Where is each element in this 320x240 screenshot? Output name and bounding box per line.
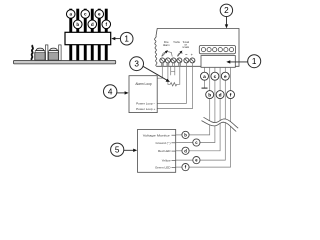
relay block 2 <box>48 48 58 60</box>
wire resistor to T4 <box>177 63 180 85</box>
wire e drop <box>200 67 225 160</box>
node d label <box>88 20 97 29</box>
node c label <box>81 10 90 19</box>
node e label (module end) <box>221 72 229 80</box>
screw terminal TB1-5 <box>184 58 189 63</box>
svg-text:5: 5 <box>115 146 120 155</box>
chassis base bar <box>14 60 116 64</box>
node e label <box>95 10 104 19</box>
screw terminal TB1-2 <box>165 58 170 63</box>
svg-text:to loads: to loads <box>183 45 190 49</box>
node d label (module end) <box>216 91 224 99</box>
node b label (module end) <box>206 91 214 99</box>
svg-text:Red LED: Red LED <box>158 149 171 153</box>
cable wire c (thick) <box>84 9 87 61</box>
voltage monitor box (callout 5 target) <box>138 130 176 173</box>
svg-text:1: 1 <box>252 57 257 66</box>
wire b drop <box>189 67 210 135</box>
lead line b <box>176 134 182 136</box>
node c label (monitor end) <box>193 139 200 146</box>
node f label (module end) <box>227 91 235 99</box>
cable wire d (thick) <box>91 9 94 61</box>
connector housing J1 <box>65 32 111 44</box>
callout 2 (module board) <box>220 4 232 28</box>
svg-text:e: e <box>98 12 101 17</box>
wire a drop <box>204 67 206 72</box>
relay contact K2 (trouble) <box>177 51 182 57</box>
node f label (monitor end) <box>182 164 189 171</box>
node a label (module end) <box>201 72 209 80</box>
post between blocks <box>46 45 48 61</box>
cable plug P1 (callout 1 target) <box>201 56 235 68</box>
resistor R1 (EOL, callout 3 target) <box>170 83 176 86</box>
svg-text:c: c <box>214 75 217 80</box>
svg-text:e: e <box>224 75 227 80</box>
svg-text:Alarm Loop: Alarm Loop <box>135 82 152 86</box>
node d label (monitor end) <box>182 147 189 154</box>
svg-text:4: 4 <box>108 87 113 96</box>
callout 1 (left, connector housing) <box>111 32 133 45</box>
node b label <box>73 20 82 29</box>
node e label (monitor end) <box>193 157 200 164</box>
wire c drop <box>200 67 215 142</box>
svg-text:Trouble: Trouble <box>173 40 180 44</box>
wire f drop <box>189 67 230 167</box>
cable wire f (thick) <box>105 9 108 61</box>
svg-text:a: a <box>203 75 206 80</box>
svg-text:Power Loop +: Power Loop + <box>136 107 155 111</box>
wire T2 to resistor <box>168 63 170 85</box>
screw terminal TB1-3 <box>171 58 176 63</box>
svg-text:d: d <box>219 92 222 98</box>
svg-text:d: d <box>184 148 187 153</box>
node a label <box>66 10 75 19</box>
svg-text:Alarm: Alarm <box>163 43 170 47</box>
relay contact K1 (fire alarm) <box>162 50 172 56</box>
cable wire b (thick) <box>76 9 79 61</box>
screw terminal TB1-1 <box>160 58 165 63</box>
lead line e <box>176 159 193 161</box>
callout 5 (voltage monitor) <box>111 143 138 156</box>
svg-text:b: b <box>208 92 211 98</box>
svg-text:Yellow: Yellow <box>162 159 172 163</box>
jumper wire T3-T4 <box>171 66 175 75</box>
svg-text:d: d <box>91 22 94 27</box>
wire T5 to power loop minus <box>157 63 186 104</box>
alarm panel box (callout 4 target) <box>129 76 157 113</box>
svg-text:2: 2 <box>224 6 229 15</box>
callout 4 (alarm panel) <box>104 85 129 98</box>
callout 1 (right, cable plug) <box>226 55 260 68</box>
node c label (module end) <box>211 72 219 80</box>
cable wire e (thick) <box>98 9 101 61</box>
svg-text:3: 3 <box>134 60 139 69</box>
lead line c <box>176 142 193 144</box>
lead line f <box>176 166 182 168</box>
module board outline (callout 2 target) <box>155 29 239 67</box>
svg-text:b: b <box>76 22 79 27</box>
post right of block 2 <box>59 45 61 61</box>
pigtail wire squiggle <box>31 45 33 60</box>
wire T6 to power loop plus <box>157 63 192 109</box>
node b label (monitor end) <box>182 131 189 138</box>
svg-text:Voltage Monitor: Voltage Monitor <box>143 133 170 137</box>
svg-text:a: a <box>69 12 72 17</box>
cable wire a (thick) <box>69 9 72 61</box>
svg-text:Ground (−): Ground (−) <box>155 141 170 145</box>
svg-text:b: b <box>184 132 187 137</box>
cable break mark <box>202 117 239 131</box>
svg-text:Power Loop −: Power Loop − <box>136 102 155 106</box>
wire d drop <box>189 67 220 151</box>
callout 3 (EOL resistor) <box>130 57 170 82</box>
socket strip J2 <box>199 46 235 54</box>
svg-text:1: 1 <box>124 35 129 44</box>
screw terminal TB1-6 <box>190 58 195 63</box>
svg-text:c: c <box>84 12 87 17</box>
wire T1 to alarm loop <box>157 63 162 78</box>
relay block 1 <box>35 48 45 60</box>
screw terminal TB1-4 <box>177 58 182 63</box>
terminal wire loops <box>161 63 180 67</box>
lead line d <box>176 150 182 152</box>
ground <box>202 80 208 88</box>
svg-text:Green LED: Green LED <box>155 166 171 170</box>
node f label <box>102 20 111 29</box>
